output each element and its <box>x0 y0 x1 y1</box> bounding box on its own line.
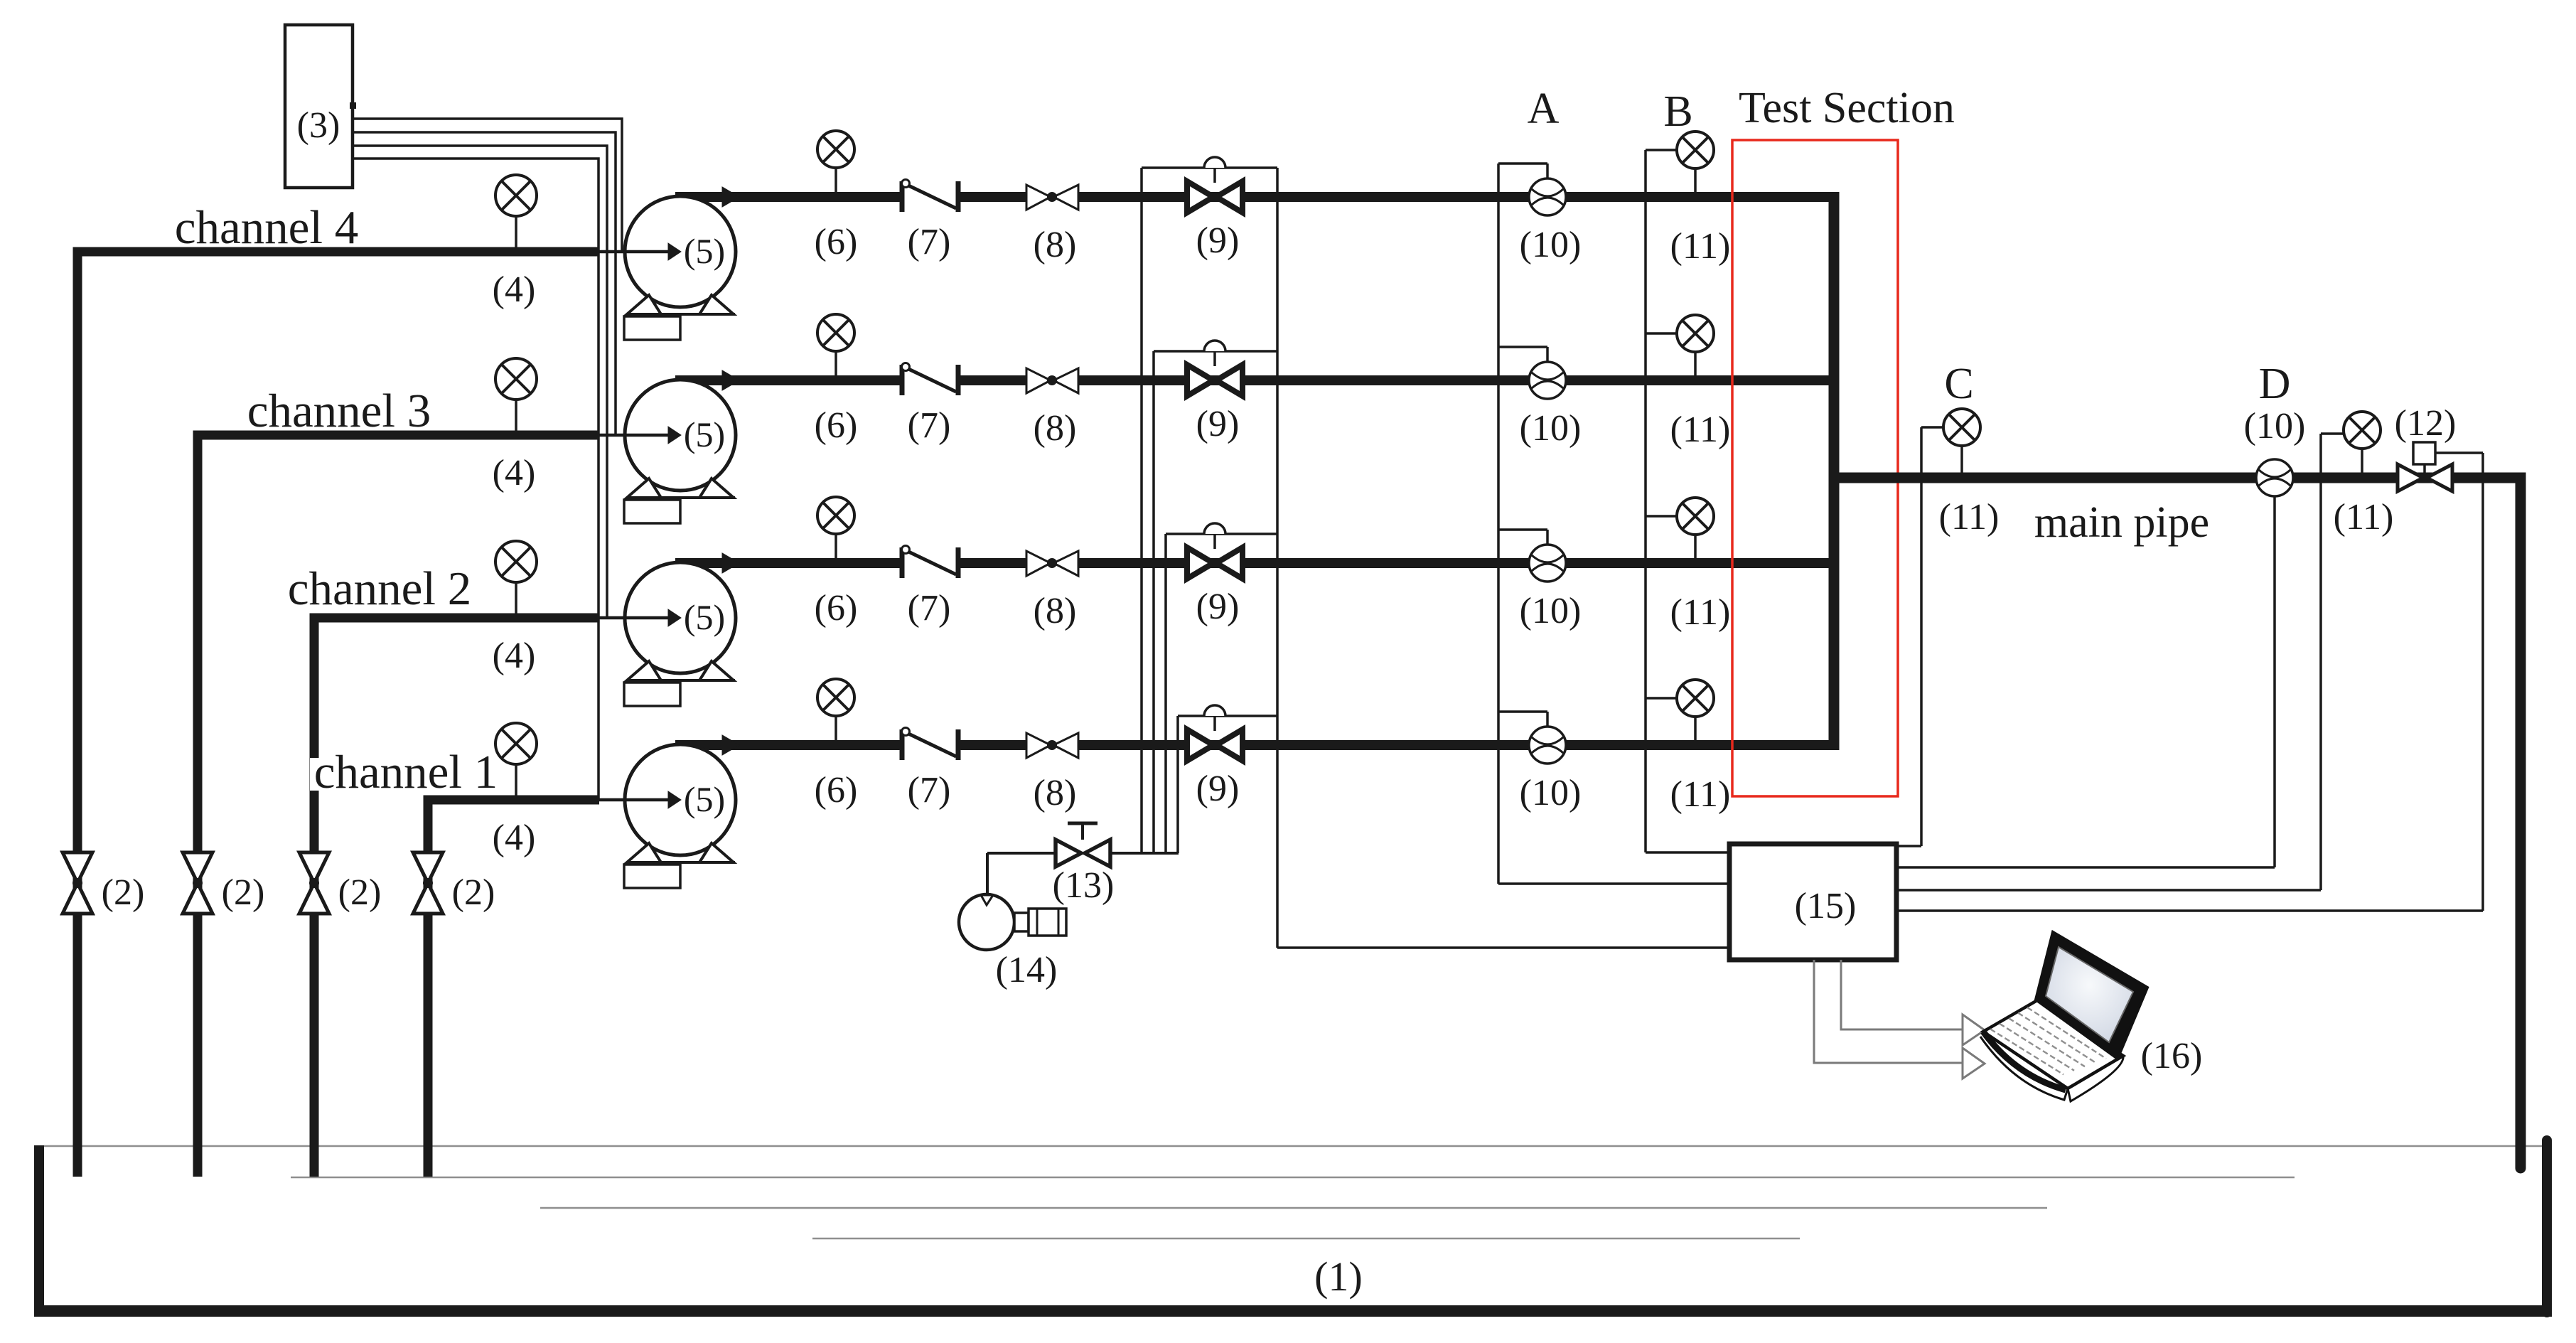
svg-text:(10): (10) <box>1520 773 1582 813</box>
svg-text:(4): (4) <box>493 269 536 310</box>
svg-text:(6): (6) <box>815 770 858 810</box>
svg-text:(15): (15) <box>1795 886 1857 926</box>
svg-text:(5): (5) <box>684 779 725 819</box>
svg-text:channel 2: channel 2 <box>288 562 472 615</box>
svg-text:(6): (6) <box>815 405 858 446</box>
svg-text:Test Section: Test Section <box>1739 84 1955 132</box>
svg-text:(7): (7) <box>908 588 951 628</box>
svg-text:(2): (2) <box>338 872 382 913</box>
svg-text:(10): (10) <box>1520 591 1582 631</box>
svg-text:A: A <box>1528 85 1560 133</box>
svg-text:(11): (11) <box>1670 226 1731 267</box>
svg-text:(11): (11) <box>1939 497 2000 537</box>
svg-text:(8): (8) <box>1034 773 1077 813</box>
svg-text:(9): (9) <box>1196 404 1240 444</box>
svg-text:(14): (14) <box>996 950 1058 990</box>
svg-text:main pipe: main pipe <box>2034 498 2209 547</box>
svg-text:(11): (11) <box>1670 410 1731 450</box>
svg-text:(4): (4) <box>493 636 536 676</box>
svg-text:(10): (10) <box>1520 225 1582 265</box>
svg-text:(16): (16) <box>2141 1036 2203 1076</box>
svg-text:D: D <box>2259 360 2291 408</box>
svg-text:(7): (7) <box>908 405 951 446</box>
svg-text:(11): (11) <box>1670 774 1731 815</box>
svg-text:channel 3: channel 3 <box>247 385 431 437</box>
svg-text:(10): (10) <box>2244 406 2306 446</box>
svg-text:(6): (6) <box>815 588 858 628</box>
svg-text:channel 1: channel 1 <box>314 746 498 798</box>
svg-text:(9): (9) <box>1196 769 1240 809</box>
svg-text:(11): (11) <box>1670 592 1731 633</box>
svg-text:(4): (4) <box>493 453 536 493</box>
svg-text:(12): (12) <box>2395 403 2457 444</box>
svg-text:(5): (5) <box>684 231 725 271</box>
svg-text:(13): (13) <box>1053 865 1115 906</box>
svg-text:(8): (8) <box>1034 225 1077 265</box>
svg-text:(5): (5) <box>684 597 725 637</box>
svg-text:(2): (2) <box>102 872 145 913</box>
svg-text:(8): (8) <box>1034 408 1077 449</box>
svg-text:channel 4: channel 4 <box>175 201 359 254</box>
svg-text:(4): (4) <box>493 818 536 858</box>
svg-text:(3): (3) <box>297 105 340 146</box>
svg-text:(2): (2) <box>222 872 265 913</box>
svg-text:(6): (6) <box>815 222 858 262</box>
svg-text:(11): (11) <box>2334 497 2394 537</box>
svg-text:(10): (10) <box>1520 408 1582 449</box>
svg-text:(5): (5) <box>684 414 725 454</box>
svg-text:C: C <box>1944 360 1973 408</box>
svg-text:(7): (7) <box>908 770 951 810</box>
svg-text:(1): (1) <box>1314 1253 1363 1300</box>
svg-text:(9): (9) <box>1196 220 1240 261</box>
svg-text:(7): (7) <box>908 222 951 262</box>
svg-text:(2): (2) <box>452 872 495 913</box>
svg-text:(8): (8) <box>1034 591 1077 631</box>
svg-text:(9): (9) <box>1196 587 1240 627</box>
svg-text:B: B <box>1663 87 1692 136</box>
